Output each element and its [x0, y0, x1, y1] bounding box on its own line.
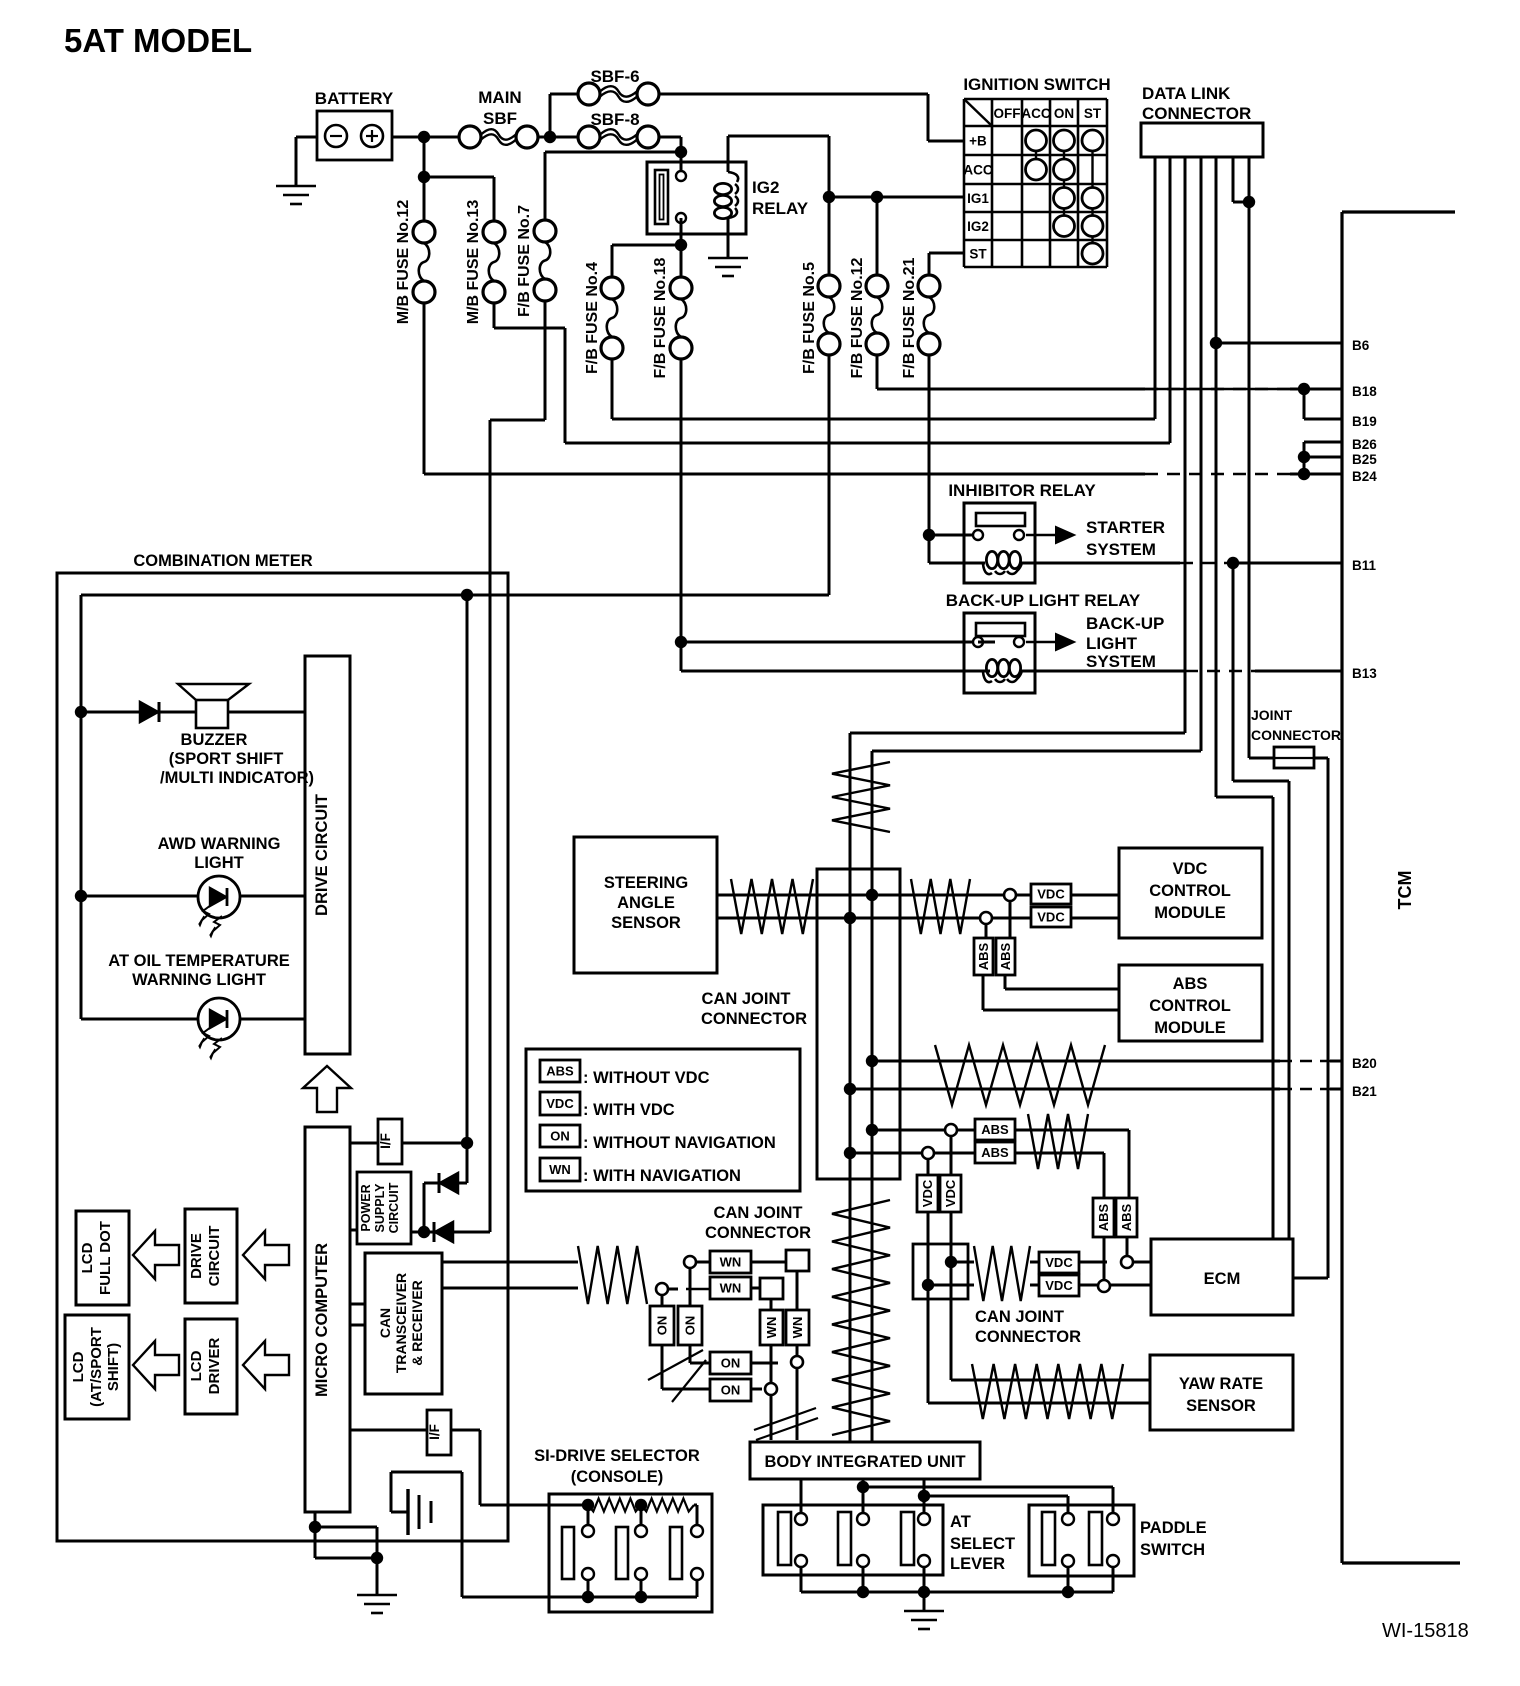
- svg-text:AWD WARNING: AWD WARNING: [158, 835, 281, 853]
- svg-text:5AT MODEL: 5AT MODEL: [64, 22, 252, 59]
- svg-text:/MULTI INDICATOR): /MULTI INDICATOR): [160, 769, 314, 787]
- svg-text:SBF-8: SBF-8: [590, 110, 639, 129]
- svg-text:MAIN: MAIN: [478, 88, 521, 107]
- svg-text:CIRCUIT: CIRCUIT: [206, 1226, 223, 1287]
- svg-text:INHIBITOR RELAY: INHIBITOR RELAY: [948, 481, 1096, 500]
- svg-text:SBF-6: SBF-6: [590, 67, 639, 86]
- svg-text:AT: AT: [950, 1513, 971, 1531]
- svg-text:WN: WN: [764, 1317, 779, 1339]
- svg-text:M/B FUSE No.12: M/B FUSE No.12: [395, 200, 412, 325]
- svg-text:(CONSOLE): (CONSOLE): [571, 1468, 664, 1486]
- svg-text:I/F: I/F: [378, 1133, 393, 1149]
- svg-text:BATTERY: BATTERY: [315, 89, 394, 108]
- svg-text:ABS: ABS: [546, 1064, 574, 1079]
- svg-text:CAN JOINT: CAN JOINT: [702, 990, 791, 1008]
- svg-text:VDC: VDC: [943, 1179, 958, 1207]
- svg-text:CONNECTOR: CONNECTOR: [701, 1010, 807, 1028]
- svg-text:POWER: POWER: [359, 1184, 373, 1231]
- svg-text:VDC: VDC: [1173, 860, 1208, 878]
- svg-text:F/B FUSE No.21: F/B FUSE No.21: [901, 257, 918, 378]
- svg-text:B20: B20: [1352, 1056, 1377, 1071]
- svg-text:B24: B24: [1352, 469, 1377, 484]
- svg-text:VDC: VDC: [920, 1179, 935, 1207]
- svg-text:ACC: ACC: [1021, 106, 1050, 121]
- svg-text:B13: B13: [1352, 666, 1377, 681]
- svg-text:ON: ON: [1054, 106, 1074, 121]
- svg-text:ST: ST: [1084, 106, 1102, 121]
- svg-text:: WITH NAVIGATION: : WITH NAVIGATION: [583, 1167, 741, 1185]
- svg-text:B18: B18: [1352, 384, 1377, 399]
- svg-text:IGNITION SWITCH: IGNITION SWITCH: [963, 75, 1110, 94]
- svg-text:VDC: VDC: [1045, 1278, 1073, 1293]
- svg-text:AT OIL TEMPERATURE: AT OIL TEMPERATURE: [108, 952, 290, 970]
- svg-text:: WITHOUT NAVIGATION: : WITHOUT NAVIGATION: [583, 1134, 776, 1152]
- svg-text:IG2: IG2: [752, 178, 779, 197]
- svg-text:MODULE: MODULE: [1154, 1019, 1226, 1037]
- svg-text:CONTROL: CONTROL: [1149, 882, 1231, 900]
- svg-text:B19: B19: [1352, 414, 1377, 429]
- svg-text:B26: B26: [1352, 437, 1377, 452]
- svg-text:LIGHT: LIGHT: [1086, 634, 1138, 653]
- svg-text:WARNING LIGHT: WARNING LIGHT: [132, 971, 266, 989]
- svg-text:F/B FUSE No.5: F/B FUSE No.5: [801, 262, 818, 374]
- svg-text:+B: +B: [969, 134, 987, 149]
- svg-text:ABS: ABS: [981, 1122, 1009, 1137]
- svg-text:B11: B11: [1352, 558, 1377, 573]
- svg-text:WN: WN: [720, 1255, 742, 1270]
- svg-text:SWITCH: SWITCH: [1140, 1541, 1205, 1559]
- svg-text:ON: ON: [721, 1383, 741, 1398]
- svg-text:DATA LINK: DATA LINK: [1142, 84, 1231, 103]
- svg-text:ABS: ABS: [981, 1145, 1009, 1160]
- svg-text:VDC: VDC: [546, 1096, 574, 1111]
- svg-text:F/B FUSE No.18: F/B FUSE No.18: [652, 257, 669, 378]
- svg-text:LEVER: LEVER: [950, 1555, 1005, 1573]
- svg-text:ON: ON: [721, 1356, 741, 1371]
- svg-text:VDC: VDC: [1037, 887, 1065, 902]
- svg-text:LCD: LCD: [79, 1242, 96, 1273]
- svg-text:SYSTEM: SYSTEM: [1086, 652, 1156, 671]
- svg-text:BACK-UP LIGHT RELAY: BACK-UP LIGHT RELAY: [946, 591, 1141, 610]
- svg-text:SBF: SBF: [483, 109, 517, 128]
- svg-text:COMBINATION METER: COMBINATION METER: [133, 552, 312, 570]
- svg-text:ON: ON: [550, 1129, 570, 1144]
- svg-text:CONTROL: CONTROL: [1149, 997, 1231, 1015]
- svg-text:I/F: I/F: [427, 1424, 442, 1440]
- svg-text:CAN JOINT: CAN JOINT: [714, 1204, 803, 1222]
- svg-text:WI-15818: WI-15818: [1382, 1620, 1469, 1642]
- svg-text:BACK-UP: BACK-UP: [1086, 614, 1164, 633]
- svg-text:FULL DOT: FULL DOT: [97, 1221, 114, 1295]
- svg-text:CAN: CAN: [377, 1308, 393, 1338]
- svg-text:SELECT: SELECT: [950, 1535, 1015, 1553]
- svg-text:LCD: LCD: [70, 1351, 87, 1382]
- svg-text:DRIVE: DRIVE: [188, 1233, 205, 1279]
- svg-text:SUPPLY: SUPPLY: [373, 1183, 387, 1233]
- svg-text:MODULE: MODULE: [1154, 904, 1226, 922]
- svg-text:ACC: ACC: [963, 163, 992, 178]
- svg-text:ABS: ABS: [1173, 975, 1208, 993]
- svg-text:(AT/SPORT: (AT/SPORT: [88, 1327, 105, 1407]
- svg-text:: WITH VDC: : WITH VDC: [583, 1101, 675, 1119]
- svg-text:VDC: VDC: [1045, 1255, 1073, 1270]
- svg-text:ST: ST: [969, 247, 987, 262]
- svg-text:WN: WN: [549, 1162, 571, 1177]
- svg-text:STARTER: STARTER: [1086, 518, 1165, 537]
- svg-text:STEERING: STEERING: [604, 874, 688, 892]
- svg-text:VDC: VDC: [1037, 910, 1065, 925]
- svg-text:ON: ON: [683, 1316, 698, 1336]
- svg-text:B25: B25: [1352, 452, 1377, 467]
- svg-text:CIRCUIT: CIRCUIT: [387, 1182, 401, 1233]
- svg-text:SI-DRIVE SELECTOR: SI-DRIVE SELECTOR: [534, 1447, 700, 1465]
- svg-text:WN: WN: [720, 1281, 742, 1296]
- svg-text:ABS: ABS: [976, 942, 991, 970]
- svg-text:ON: ON: [655, 1316, 670, 1336]
- svg-text:F/B FUSE No.4: F/B FUSE No.4: [584, 262, 601, 374]
- svg-text:TCM: TCM: [1395, 871, 1415, 910]
- svg-text:OFF: OFF: [994, 106, 1021, 121]
- svg-text:IG1: IG1: [967, 191, 989, 206]
- svg-text:ABS: ABS: [1119, 1203, 1134, 1231]
- svg-text:ANGLE: ANGLE: [617, 894, 675, 912]
- svg-text:SENSOR: SENSOR: [1186, 1397, 1256, 1415]
- svg-text:B6: B6: [1352, 338, 1370, 353]
- svg-text:CONNECTOR: CONNECTOR: [1142, 104, 1251, 123]
- svg-text:IG2: IG2: [967, 219, 989, 234]
- svg-text:F/B FUSE No.12: F/B FUSE No.12: [849, 257, 866, 378]
- svg-text:PADDLE: PADDLE: [1140, 1519, 1207, 1537]
- svg-text:RELAY: RELAY: [752, 199, 809, 218]
- svg-text:WN: WN: [790, 1317, 805, 1339]
- svg-text:JOINT: JOINT: [1251, 707, 1293, 723]
- svg-text:CONNECTOR: CONNECTOR: [975, 1328, 1081, 1346]
- svg-text:B21: B21: [1352, 1084, 1377, 1099]
- svg-text:& RECEIVER: & RECEIVER: [409, 1280, 425, 1366]
- svg-text:F/B FUSE No.7: F/B FUSE No.7: [516, 205, 533, 317]
- svg-text:CONNECTOR: CONNECTOR: [705, 1224, 811, 1242]
- svg-text:DRIVER: DRIVER: [206, 1338, 223, 1395]
- svg-text:BODY INTEGRATED UNIT: BODY INTEGRATED UNIT: [764, 1453, 965, 1471]
- svg-text:ABS: ABS: [1096, 1203, 1111, 1231]
- svg-text:M/B FUSE No.13: M/B FUSE No.13: [465, 200, 482, 325]
- svg-text:ABS: ABS: [998, 942, 1013, 970]
- svg-text:(SPORT SHIFT: (SPORT SHIFT: [169, 750, 284, 768]
- svg-text:SYSTEM: SYSTEM: [1086, 540, 1156, 559]
- svg-text:BUZZER: BUZZER: [181, 731, 248, 749]
- svg-text:SENSOR: SENSOR: [611, 914, 681, 932]
- svg-text:DRIVE CIRCUIT: DRIVE CIRCUIT: [313, 794, 331, 916]
- svg-text:SHIFT): SHIFT): [105, 1343, 122, 1391]
- svg-text:ECM: ECM: [1204, 1270, 1241, 1288]
- svg-text:LCD: LCD: [188, 1350, 205, 1381]
- svg-text:: WITHOUT VDC: : WITHOUT VDC: [583, 1069, 710, 1087]
- svg-text:CAN JOINT: CAN JOINT: [975, 1308, 1064, 1326]
- svg-text:LIGHT: LIGHT: [194, 854, 244, 872]
- svg-text:YAW RATE: YAW RATE: [1179, 1375, 1263, 1393]
- svg-text:MICRO COMPUTER: MICRO COMPUTER: [313, 1243, 331, 1397]
- svg-text:CONNECTOR: CONNECTOR: [1251, 727, 1341, 743]
- svg-text:TRANSCEIVER: TRANSCEIVER: [393, 1273, 409, 1373]
